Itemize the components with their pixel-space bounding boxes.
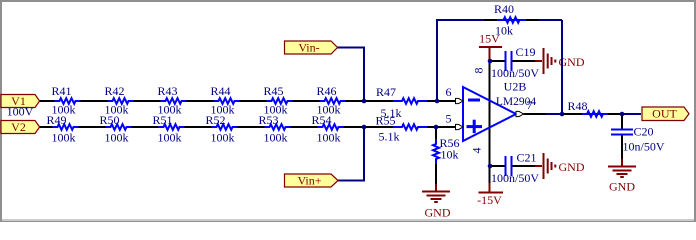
svg-text:Vin+: Vin+ (297, 174, 321, 188)
port V2 (1, 120, 40, 134)
value 100k of R41 (52, 103, 76, 117)
label R45 (263, 84, 283, 98)
svg-text:100k: 100k (211, 131, 235, 145)
wire power rail through op-amp pins 8 and 4 (489, 61, 491, 166)
power +15V (479, 47, 502, 61)
wire R56 to ground (435, 164, 437, 184)
value 100k of R52 (211, 131, 235, 145)
svg-text:15V: 15V (479, 32, 500, 46)
port V1 (1, 94, 40, 108)
label GND at R56 (425, 206, 451, 220)
label R53 (258, 113, 278, 127)
pin number 7 (527, 98, 533, 112)
label R41 (51, 84, 71, 98)
wire feedback right vertical (561, 20, 563, 114)
svg-text:GND: GND (609, 180, 635, 194)
wire C20 to ground (621, 135, 623, 159)
label C19 (516, 45, 536, 59)
wire bottom resistor chain (79, 126, 318, 128)
svg-text:-15V: -15V (477, 193, 502, 207)
node bottom Vin+ (362, 125, 367, 130)
svg-text:R55: R55 (375, 113, 395, 127)
svg-text:100V: 100V (7, 104, 34, 118)
label R43 (157, 84, 177, 98)
svg-text:R42: R42 (104, 84, 124, 98)
svg-text:R48: R48 (568, 99, 588, 113)
value 100k of R50 (105, 131, 129, 145)
resistor R51 (159, 124, 185, 130)
ground at R56 (422, 184, 450, 202)
svg-text:100k: 100k (264, 131, 288, 145)
value 100k of R51 (158, 131, 182, 145)
label GND at C19 (559, 55, 585, 69)
value 100k of R46 (317, 103, 341, 117)
label R42 (104, 84, 124, 98)
value 100V of V1 (7, 104, 34, 118)
value 10k of R40 (495, 24, 513, 38)
label R54 (311, 113, 331, 127)
wire R54 to R55 (344, 126, 394, 128)
op-amp inverting input mark (468, 99, 480, 102)
svg-text:10n/50V: 10n/50V (623, 140, 665, 154)
value 10n/50V of C20 (623, 140, 665, 154)
svg-text:R50: R50 (99, 113, 119, 127)
port Vin- (285, 40, 338, 54)
svg-text:C20: C20 (634, 125, 654, 139)
node output C20 (620, 112, 625, 117)
ground at C21 (535, 153, 555, 179)
svg-text:100k: 100k (317, 131, 341, 145)
svg-text:R47: R47 (376, 85, 396, 99)
resistor R52 (212, 124, 238, 130)
resistor R50 (106, 124, 132, 130)
wire node to R56 (435, 127, 437, 139)
resistor R40 (497, 17, 526, 23)
resistor R55 (393, 124, 427, 130)
value 5.1k of R47 (381, 106, 402, 120)
svg-text:100k: 100k (158, 131, 182, 145)
wire pin4 node to C21 (490, 165, 505, 167)
capacitor C20 (611, 130, 633, 135)
wire Vin- to top node (338, 48, 365, 102)
resistor R53 (265, 124, 291, 130)
label R44 (210, 84, 230, 98)
resistor R49 (53, 124, 79, 130)
svg-text:R43: R43 (157, 84, 177, 98)
capacitor C19 (506, 51, 512, 71)
resistor R56 (433, 139, 439, 164)
svg-text:100n/50V: 100n/50V (491, 66, 539, 80)
label C21 (517, 151, 537, 165)
label R52 (205, 113, 225, 127)
resistor R41 (55, 98, 81, 104)
resistor R43 (161, 98, 187, 104)
wire C21 to ground (513, 165, 536, 167)
svg-text:5: 5 (446, 112, 452, 126)
wire op-amp output (524, 113, 547, 115)
wire pin8 node to C19 (490, 60, 505, 62)
wire R47 to pin 6 (427, 100, 456, 102)
value 100n/50V of C19 (491, 66, 539, 80)
node top Vin- (362, 99, 367, 104)
label R49 (46, 113, 66, 127)
svg-text:R49: R49 (46, 113, 66, 127)
svg-text:R53: R53 (258, 113, 278, 127)
pin 5 arrow (456, 124, 464, 129)
svg-text:R51: R51 (152, 113, 172, 127)
op-amp non-inverting input mark (467, 120, 483, 134)
label 15V (479, 32, 500, 46)
svg-text:V2: V2 (11, 120, 26, 134)
label GND at C20 (609, 180, 635, 194)
node bottom R56 (434, 125, 439, 130)
wire R55 to pin 5 (427, 126, 456, 128)
wire R46 to R47 (346, 100, 394, 102)
svg-text:10k: 10k (441, 147, 459, 161)
svg-text:100n/50V: 100n/50V (491, 171, 539, 185)
svg-text:100k: 100k (105, 131, 129, 145)
node pin8 supply (488, 59, 493, 64)
svg-text:6: 6 (446, 85, 452, 99)
svg-text:GND: GND (559, 160, 585, 174)
wire top resistor chain (81, 100, 320, 102)
label R55 (375, 113, 395, 127)
label R56 (440, 136, 460, 150)
label R47 (376, 85, 396, 99)
ground at C20 (608, 159, 636, 177)
label R50 (99, 113, 119, 127)
pin number 5 (446, 112, 452, 126)
svg-text:R46: R46 (316, 84, 336, 98)
label R40 (494, 2, 514, 16)
port Vin+ (285, 174, 339, 188)
wire output to OUT port (546, 113, 641, 115)
svg-text:R45: R45 (263, 84, 283, 98)
power -15V (479, 183, 504, 193)
node output feedback (560, 112, 565, 117)
value 100n/50V of C21 (491, 171, 539, 185)
svg-text:5.1k: 5.1k (379, 130, 400, 144)
svg-text:R54: R54 (311, 113, 331, 127)
wire V1 to R41 (40, 100, 55, 102)
svg-text:R40: R40 (494, 2, 514, 16)
label U2B (504, 80, 527, 94)
port OUT (642, 107, 689, 121)
wire feedback loop (437, 20, 562, 101)
wire out node to C20 (621, 114, 623, 129)
pin number 8 (472, 68, 486, 74)
resistor R45 (267, 98, 293, 104)
svg-text:C19: C19 (516, 45, 536, 59)
svg-text:4: 4 (470, 148, 484, 154)
label R51 (152, 113, 172, 127)
svg-text:OUT: OUT (652, 107, 677, 121)
resistor R46 (320, 98, 346, 104)
resistor R48 (582, 111, 608, 117)
svg-text:U2B: U2B (504, 80, 527, 94)
node top feedback (435, 99, 440, 104)
svg-text:7: 7 (527, 98, 533, 112)
op-amp U2B triangle (463, 87, 516, 141)
value 100k of R45 (264, 103, 288, 117)
value 100k of R49 (52, 131, 76, 145)
svg-text:GND: GND (425, 206, 451, 220)
svg-text:R52: R52 (205, 113, 225, 127)
wire R48 pins (563, 113, 620, 115)
label LM2904 (496, 96, 537, 108)
value 10k of R56 (441, 147, 459, 161)
resistor R47 (393, 98, 427, 104)
capacitor C21 (506, 156, 512, 176)
wire V2 to R49 (40, 126, 53, 128)
ground at C19 (535, 48, 555, 74)
label -15V (477, 193, 502, 207)
resistor R44 (214, 98, 240, 104)
svg-text:R44: R44 (210, 84, 230, 98)
label R48 (568, 99, 588, 113)
svg-text:100k: 100k (52, 131, 76, 145)
svg-text:R41: R41 (51, 84, 71, 98)
pin 6 arrow (456, 98, 464, 103)
label R46 (316, 84, 336, 98)
pin number 6 (446, 85, 452, 99)
resistor R42 (108, 98, 134, 104)
resistor R54 (318, 124, 344, 130)
svg-text:8: 8 (472, 68, 486, 74)
node pin4 supply (488, 164, 493, 169)
label GND at C21 (559, 160, 585, 174)
value 100k of R53 (264, 131, 288, 145)
value 100k of R44 (211, 103, 235, 117)
value 5.1k of R55 (379, 130, 400, 144)
pin 7 arrow (516, 111, 524, 116)
pin number 4 (470, 148, 484, 154)
svg-text:Vin-: Vin- (298, 40, 319, 54)
label C20 (634, 125, 654, 139)
wire pin4 node to -15V (489, 166, 491, 183)
value 100k of R43 (158, 103, 182, 117)
svg-text:C21: C21 (517, 151, 537, 165)
wire C19 to ground (513, 60, 536, 62)
value 100k of R42 (105, 103, 129, 117)
value 100k of R54 (317, 131, 341, 145)
wire feedback R40 pins (484, 19, 539, 21)
wire Vin+ to bottom node (338, 127, 364, 181)
